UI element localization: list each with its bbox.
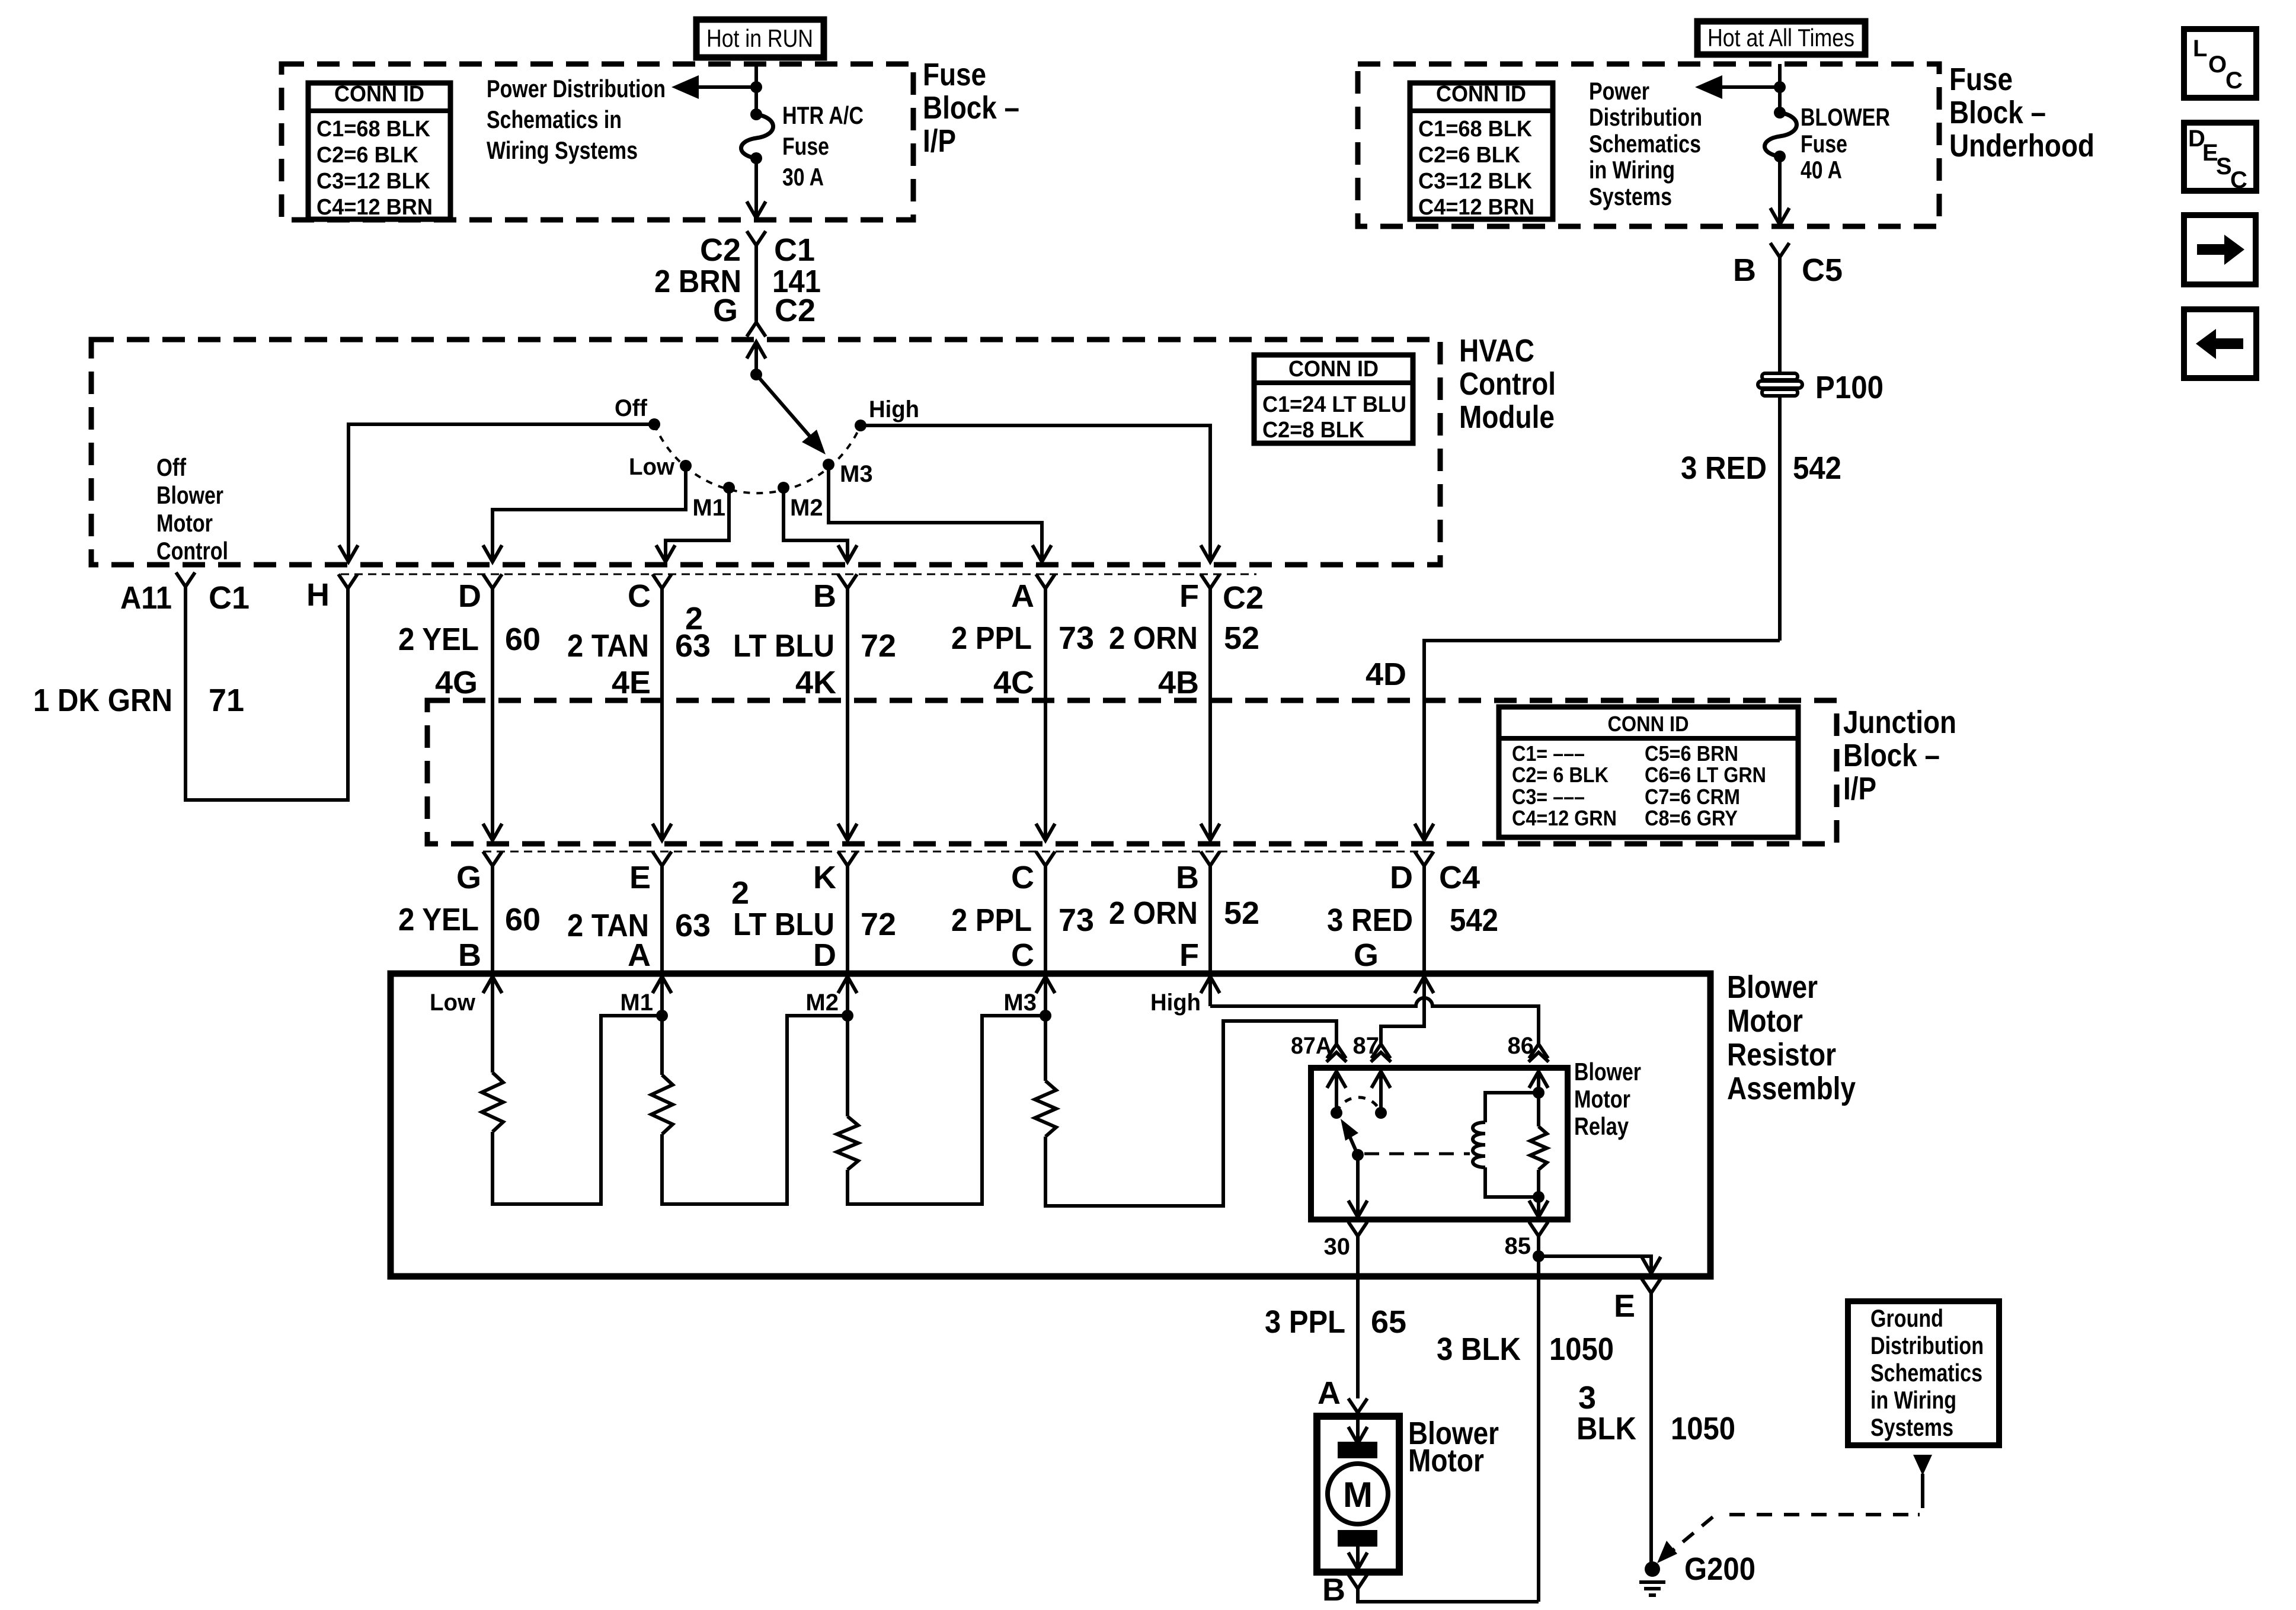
- switch travel dashed arc: [654, 424, 861, 493]
- wire through junction block at x=2403: [1422, 700, 1426, 840]
- connector fork pin E: [1642, 1279, 1661, 1293]
- connector table CONN ID (fuse block I/P): [308, 83, 450, 219]
- wire M1 dot to resistor R2: [660, 1016, 664, 1075]
- svg-text:4C: 4C: [993, 665, 1034, 700]
- svg-text:Blower: Blower: [156, 481, 223, 509]
- svg-text:B: B: [1322, 1572, 1345, 1608]
- wire M1 contact to pin C: [666, 488, 729, 562]
- svg-text:F: F: [1179, 937, 1199, 973]
- svg-text:Junction: Junction: [1843, 705, 1956, 740]
- motor brush bottom (filled): [1338, 1530, 1377, 1547]
- arrowhead M1 wire at pin C: [656, 545, 675, 562]
- svg-text:Blower: Blower: [1727, 969, 1818, 1005]
- svg-text:Systems: Systems: [1589, 183, 1672, 210]
- arrowhead Off wire at pin H: [339, 545, 358, 562]
- thin dashed connector row line (junction bottom): [483, 851, 1434, 853]
- svg-text:L: L: [2193, 36, 2207, 62]
- svg-text:in Wiring: in Wiring: [1870, 1386, 1956, 1414]
- svg-text:Resistor: Resistor: [1727, 1037, 1836, 1073]
- arrowhead M3 wire at pin A: [1032, 545, 1051, 562]
- wire stub to arrow (underhood): [1722, 85, 1780, 89]
- svg-text:E: E: [629, 860, 651, 895]
- svg-text:A11: A11: [120, 580, 172, 616]
- connector fork motor pin B: [1348, 1574, 1367, 1589]
- wire 3 RED 542 below P100: [1778, 396, 1782, 641]
- svg-text:73: 73: [1059, 620, 1094, 656]
- svg-text:542: 542: [1450, 902, 1498, 938]
- wire High pin down: [1208, 977, 1212, 1006]
- wire motor terminal A inside: [1356, 1416, 1360, 1443]
- svg-text:C: C: [628, 578, 651, 614]
- relay contact dot 87: [1375, 1107, 1387, 1119]
- svg-text:Relay: Relay: [1574, 1112, 1629, 1140]
- nav box next arrow: [2184, 215, 2256, 284]
- svg-text:Fuse: Fuse: [1949, 62, 2013, 97]
- nav box LOC: [2184, 29, 2256, 98]
- svg-text:B: B: [813, 578, 836, 614]
- svg-text:C4=12 BRN: C4=12 BRN: [316, 195, 433, 220]
- svg-text:Fuse: Fuse: [782, 132, 829, 160]
- svg-text:Blower: Blower: [1574, 1058, 1641, 1086]
- svg-text:Assembly: Assembly: [1727, 1071, 1856, 1106]
- svg-text:BLK: BLK: [1576, 1411, 1636, 1446]
- arrowhead M3 entering resistor box: [1036, 977, 1055, 993]
- svg-text:C2: C2: [775, 293, 816, 328]
- svg-text:CONN ID: CONN ID: [1288, 357, 1379, 382]
- svg-text:2 YEL: 2 YEL: [398, 902, 479, 937]
- svg-text:B: B: [1176, 860, 1199, 895]
- connector fork relay 87A: [1327, 1044, 1346, 1058]
- arrowhead M1 entering resistor box: [653, 977, 671, 993]
- arrow to power distribution (left): [671, 75, 699, 99]
- wire Low contact to pin D: [493, 466, 686, 562]
- svg-text:Hot at All Times: Hot at All Times: [1707, 24, 1854, 52]
- connector fork pin A: [1036, 574, 1055, 588]
- wire A11 to H (1 DK GRN 71): [186, 587, 348, 800]
- dashed link antenna to G200: [1918, 1496, 1923, 1515]
- wire through junction block at x=831: [491, 700, 494, 840]
- wire relay common to pin 30: [1356, 1155, 1360, 1217]
- svg-text:3: 3: [1578, 1380, 1596, 1416]
- wire relay 87 contact: [1379, 1071, 1383, 1113]
- wire through junction block at x=2042: [1208, 700, 1212, 840]
- ground G200 dot: [1645, 1561, 1660, 1577]
- junction dot ground net: [1533, 1250, 1544, 1262]
- svg-text:K: K: [813, 860, 836, 895]
- wire E to G200: [1649, 1293, 1653, 1562]
- svg-text:63: 63: [675, 908, 711, 943]
- svg-text:C1: C1: [774, 232, 815, 268]
- wire M3 contact to pin A: [829, 465, 1042, 562]
- svg-text:4K: 4K: [795, 665, 836, 700]
- wire R3 bottom to M3 riser: [848, 1016, 1045, 1204]
- connector fork pin A11: [176, 572, 195, 587]
- svg-text:M1: M1: [692, 495, 725, 521]
- wire High contact to pin F: [861, 425, 1210, 562]
- svg-text:C1=68 BLK: C1=68 BLK: [1418, 117, 1533, 142]
- connector table CONN ID (junction block): [1499, 707, 1798, 837]
- wire junction G to resistor B (2 YEL 60): [491, 866, 494, 974]
- junction dot M1: [656, 1010, 668, 1022]
- svg-text:LT BLU: LT BLU: [733, 907, 834, 942]
- junction dot M3: [1040, 1010, 1051, 1022]
- svg-text:C5=6 BRN: C5=6 BRN: [1645, 741, 1738, 766]
- svg-text:C1= –––: C1= –––: [1512, 741, 1585, 766]
- svg-text:P100: P100: [1815, 370, 1884, 405]
- svg-text:Block –: Block –: [1949, 95, 2046, 130]
- svg-text:Wiring Systems: Wiring Systems: [487, 136, 638, 164]
- wire junction E to resistor A (2 TAN 63): [660, 866, 664, 974]
- wire High to relay 86 with hop over G wire: [1210, 998, 1539, 1044]
- svg-text:542: 542: [1793, 450, 1841, 486]
- svg-text:Motor: Motor: [1408, 1443, 1484, 1478]
- pass-through connector P100 symbol: [1762, 373, 1798, 380]
- power label box 'Hot in RUN': [696, 20, 824, 57]
- switch contact M1: [723, 482, 735, 494]
- switch contact High: [855, 420, 866, 431]
- wire M2 pin to junction dot: [846, 977, 849, 1016]
- wire 3 RED jog to junction block: [1424, 641, 1780, 700]
- svg-text:3 RED: 3 RED: [1327, 902, 1413, 938]
- svg-text:60: 60: [505, 622, 541, 657]
- svg-text:Module: Module: [1459, 399, 1555, 435]
- wire junction K to resistor D (2 LT BLU 72): [846, 866, 849, 974]
- connector fork junction pin E: [653, 852, 671, 866]
- svg-text:I/P: I/P: [923, 123, 956, 159]
- resistor R4 (M3): [1035, 1081, 1056, 1137]
- wire pin F to junction B (2 ORN 52): [1208, 588, 1212, 700]
- svg-text:Systems: Systems: [1870, 1413, 1953, 1441]
- power label box 'Hot at All Times': [1697, 21, 1865, 55]
- switch contact M2: [778, 482, 789, 494]
- arrowhead at junction block bottom x=2403: [1415, 824, 1434, 840]
- svg-text:C7=6 CRM: C7=6 CRM: [1645, 785, 1740, 809]
- wire junction B to resistor F (2 ORN 52): [1208, 866, 1212, 974]
- svg-text:Hot in RUN: Hot in RUN: [706, 24, 813, 52]
- svg-text:C1: C1: [209, 580, 250, 616]
- svg-text:C1=24 LT BLU: C1=24 LT BLU: [1262, 392, 1406, 417]
- resistor R1 (Low): [482, 1073, 503, 1132]
- wire motor terminal B inside: [1356, 1547, 1360, 1569]
- arrowhead at I/P block bottom: [747, 201, 766, 218]
- connector fork junction pin D: [1415, 852, 1434, 866]
- svg-text:HVAC: HVAC: [1459, 333, 1534, 369]
- nav prev arrow glyph: [2196, 329, 2243, 359]
- switch contact Off: [648, 418, 660, 430]
- svg-text:D: D: [1390, 860, 1413, 895]
- fuse block Underhood dashed box: [1358, 64, 1939, 226]
- wire relay coil to pin 85: [1537, 1197, 1540, 1217]
- svg-text:HTR A/C: HTR A/C: [782, 101, 864, 129]
- svg-text:Schematics: Schematics: [1870, 1359, 1982, 1387]
- svg-text:G: G: [456, 860, 481, 895]
- relay coil bottom node dot: [1533, 1191, 1544, 1203]
- arrowhead at resistor box bottom (E): [1642, 1257, 1661, 1273]
- relay mechanical link dashed: [1364, 1153, 1470, 1156]
- svg-text:CONN ID: CONN ID: [334, 82, 424, 107]
- arrowhead at junction block bottom x=1764: [1036, 824, 1055, 840]
- svg-text:1050: 1050: [1549, 1331, 1614, 1367]
- relay suppression resistor: [1530, 1126, 1547, 1170]
- svg-text:Block –: Block –: [923, 90, 1019, 126]
- HVAC control module dashed box: [91, 340, 1440, 565]
- svg-text:Low: Low: [430, 990, 476, 1016]
- svg-text:2: 2: [685, 601, 703, 636]
- svg-text:G: G: [1354, 937, 1379, 973]
- svg-text:3 RED: 3 RED: [1681, 450, 1767, 486]
- wire pin C to junction E (2 TAN 63): [660, 588, 664, 700]
- svg-text:M3: M3: [840, 461, 873, 487]
- svg-text:High: High: [1150, 990, 1201, 1016]
- ground G200 symbol: [1639, 1580, 1665, 1584]
- svg-text:52: 52: [1224, 620, 1259, 656]
- arrowhead relay pin 85 inside: [1529, 1201, 1548, 1217]
- fuse F2 BLOWER 40A symbol: [1765, 113, 1797, 156]
- blower motor resistor assembly box: [391, 974, 1710, 1276]
- svg-text:C: C: [1011, 860, 1034, 895]
- wire power feed to fuse HTR A/C: [754, 64, 758, 114]
- svg-text:87A: 87A: [1291, 1033, 1332, 1059]
- svg-text:BLOWER: BLOWER: [1801, 103, 1890, 131]
- svg-text:CONN ID: CONN ID: [1608, 712, 1689, 736]
- svg-text:C2=8 BLK: C2=8 BLK: [1262, 418, 1365, 443]
- wire junction C to resistor C (2 PPL 73): [1044, 866, 1047, 974]
- svg-text:Motor: Motor: [1574, 1085, 1630, 1113]
- svg-text:Control: Control: [156, 537, 228, 565]
- wire pin B to junction K (2 LT BLU 72): [846, 588, 849, 700]
- svg-text:C2=6 BLK: C2=6 BLK: [1418, 143, 1521, 168]
- svg-text:M2: M2: [805, 990, 839, 1016]
- connector fork pin D: [483, 574, 502, 588]
- svg-text:Off: Off: [156, 453, 187, 481]
- wire G pin down to relay 87: [1381, 977, 1424, 1044]
- connector fork junction pin B: [1201, 852, 1220, 866]
- junction dot power feed: [750, 81, 762, 93]
- svg-text:60: 60: [505, 902, 541, 937]
- svg-text:2 ORN: 2 ORN: [1109, 620, 1198, 656]
- arrowhead Low entering resistor box: [483, 977, 502, 993]
- svg-text:86: 86: [1508, 1033, 1534, 1059]
- svg-text:M3: M3: [1003, 990, 1037, 1016]
- svg-text:4D: 4D: [1366, 657, 1406, 692]
- svg-text:2 PPL: 2 PPL: [951, 902, 1032, 938]
- arrowhead relay 87 inside: [1371, 1071, 1390, 1088]
- svg-text:85: 85: [1505, 1233, 1531, 1259]
- arrowhead G entering resistor box: [1415, 977, 1434, 993]
- svg-text:4G: 4G: [435, 665, 478, 700]
- svg-text:Distribution: Distribution: [1589, 103, 1702, 131]
- wire 3 BLK 1050 down to motor return: [1537, 1256, 1540, 1602]
- motor armature circle: [1328, 1464, 1388, 1524]
- connector fork pin B: [838, 574, 857, 588]
- svg-text:2: 2: [731, 875, 749, 911]
- arrowhead at junction block bottom x=831: [483, 824, 502, 840]
- svg-text:C3=12 BLK: C3=12 BLK: [316, 169, 431, 194]
- connector fork junction pin K: [838, 852, 857, 866]
- svg-text:Schematics: Schematics: [1589, 130, 1701, 158]
- svg-text:Distribution: Distribution: [1870, 1331, 1984, 1359]
- arrowhead at junction block bottom x=2042: [1201, 824, 1220, 840]
- svg-text:Block –: Block –: [1843, 738, 1940, 773]
- svg-text:3 BLK: 3 BLK: [1437, 1331, 1521, 1367]
- wire M2 contact to pin B: [784, 488, 848, 562]
- relay contact travel dashed arc: [1336, 1097, 1381, 1113]
- connector fork pin F: [1201, 574, 1220, 588]
- svg-text:C2=6 BLK: C2=6 BLK: [316, 143, 419, 168]
- svg-text:O: O: [2208, 52, 2227, 78]
- wire through junction block at x=1764: [1044, 700, 1047, 840]
- wire through junction block at x=1430: [846, 700, 849, 840]
- switch contact M3: [823, 459, 834, 470]
- wire fuse output down: [754, 158, 758, 218]
- connector fork junction pin C: [1036, 852, 1055, 866]
- svg-text:C2= 6 BLK: C2= 6 BLK: [1512, 763, 1609, 787]
- svg-text:C6=6 LT GRN: C6=6 LT GRN: [1645, 763, 1766, 787]
- arrowhead at junction block bottom x=1117: [653, 824, 671, 840]
- connector table CONN ID (HVAC): [1254, 355, 1413, 443]
- svg-text:C2: C2: [700, 232, 741, 268]
- wire 542 from C5 to P100: [1778, 257, 1782, 373]
- relay contact dot 87A: [1331, 1107, 1342, 1119]
- svg-text:M: M: [1343, 1475, 1373, 1515]
- svg-text:C5: C5: [1802, 252, 1843, 288]
- svg-text:72: 72: [861, 907, 896, 942]
- wire relay 30 to blower motor A (3 PPL 65): [1356, 1236, 1360, 1398]
- svg-text:S: S: [2216, 153, 2232, 180]
- svg-text:71: 71: [209, 683, 244, 718]
- connector fork C2 upper half: [747, 231, 766, 245]
- arrow to power distribution (underhood): [1695, 75, 1722, 99]
- svg-text:C4=12 GRN: C4=12 GRN: [1512, 806, 1617, 830]
- svg-text:Fuse: Fuse: [923, 57, 986, 92]
- connector fork C1 lower half: [747, 322, 766, 337]
- fuse F1 HTR A/C 30A symbol: [741, 114, 773, 158]
- svg-text:2 YEL: 2 YEL: [398, 622, 479, 657]
- connector fork pin H: [338, 574, 357, 588]
- svg-text:CONN ID: CONN ID: [1436, 82, 1526, 107]
- junction dot M2: [842, 1010, 853, 1022]
- svg-text:A: A: [628, 937, 651, 973]
- wire ground net to pin E: [1539, 1256, 1651, 1273]
- wire R4 bottom to relay 87A: [1045, 1021, 1336, 1206]
- svg-text:C: C: [1011, 937, 1034, 973]
- svg-text:C1=68 BLK: C1=68 BLK: [316, 117, 431, 142]
- relay switch blade with arrowhead: [1349, 1135, 1358, 1155]
- svg-text:4E: 4E: [612, 665, 651, 700]
- wire M2 dot to resistor R3: [846, 1016, 849, 1116]
- wire relay 85 to ground net: [1537, 1236, 1540, 1256]
- svg-text:C4: C4: [1439, 860, 1480, 895]
- svg-text:Power Distribution: Power Distribution: [487, 75, 666, 103]
- relay coil top node dot: [1533, 1087, 1544, 1099]
- motor brush top (filled): [1338, 1442, 1377, 1458]
- arrowhead relay 87A inside: [1327, 1071, 1346, 1088]
- svg-text:B: B: [458, 937, 481, 973]
- svg-text:High: High: [869, 396, 919, 422]
- svg-text:40 A: 40 A: [1801, 156, 1842, 184]
- svg-text:65: 65: [1371, 1304, 1406, 1340]
- switch arm with arrowhead toward M3: [756, 375, 811, 437]
- wire R1 bottom to M1 riser: [493, 1016, 662, 1204]
- arrowhead dashed link at G200: [1657, 1541, 1677, 1563]
- svg-text:87: 87: [1353, 1033, 1380, 1059]
- nav box DESC: [2184, 123, 2256, 191]
- svg-text:2 PPL: 2 PPL: [951, 620, 1032, 656]
- arrowhead motor inside bottom: [1348, 1553, 1367, 1569]
- svg-text:Power: Power: [1589, 77, 1649, 105]
- svg-text:C2: C2: [1223, 580, 1264, 616]
- svg-text:M2: M2: [790, 495, 823, 521]
- wire M1 pin to junction dot: [660, 977, 664, 1016]
- svg-text:Control: Control: [1459, 366, 1556, 402]
- wire BLOWER fuse output down: [1778, 156, 1782, 225]
- switch contact Low: [680, 460, 692, 472]
- junction dot underhood feed: [1774, 81, 1786, 93]
- connector fork B|C5: [1770, 243, 1789, 257]
- arrowhead relay 86 inside: [1529, 1071, 1548, 1088]
- svg-text:C3=12 BLK: C3=12 BLK: [1418, 169, 1533, 194]
- svg-text:3 PPL: 3 PPL: [1265, 1304, 1345, 1340]
- connector fork relay 30: [1348, 1222, 1367, 1236]
- svg-text:M1: M1: [620, 990, 653, 1016]
- svg-text:Ground: Ground: [1870, 1304, 1943, 1332]
- wire motor B return to ground net: [1358, 1589, 1539, 1602]
- svg-text:H: H: [306, 577, 330, 613]
- svg-text:Underhood: Underhood: [1949, 128, 2094, 164]
- wire through junction block at x=1117: [660, 700, 664, 840]
- wire Low to resistor R1: [491, 977, 494, 1073]
- wire stub to arrow: [699, 85, 756, 89]
- svg-text:30: 30: [1324, 1234, 1351, 1260]
- wire M3 pin to junction dot: [1044, 977, 1047, 1016]
- antenna symbol (ground reference): [1913, 1455, 1932, 1475]
- resistor R2 (M1): [651, 1075, 673, 1134]
- arrowhead M2 entering resistor box: [838, 977, 857, 993]
- svg-text:30 A: 30 A: [782, 163, 824, 191]
- connector table CONN ID (fuse block Underhood): [1410, 83, 1553, 219]
- svg-text:C8=6 GRY: C8=6 GRY: [1645, 806, 1738, 830]
- svg-text:D: D: [813, 937, 836, 973]
- svg-text:Motor: Motor: [156, 509, 213, 537]
- connector fork relay 85: [1529, 1222, 1548, 1236]
- svg-text:72: 72: [861, 628, 896, 664]
- wire junction D to resistor G (3 RED 542): [1422, 866, 1426, 974]
- svg-text:C: C: [2230, 167, 2247, 193]
- svg-text:B: B: [1733, 252, 1756, 288]
- svg-text:C: C: [2225, 68, 2243, 94]
- arrowhead M2 wire at pin B: [838, 545, 857, 562]
- svg-text:C3= –––: C3= –––: [1512, 785, 1585, 809]
- svg-text:A: A: [1318, 1375, 1341, 1411]
- svg-text:D: D: [458, 578, 481, 614]
- svg-text:Low: Low: [629, 454, 675, 480]
- svg-text:1 DK GRN: 1 DK GRN: [33, 683, 172, 718]
- arrowhead at junction block bottom x=1430: [838, 824, 857, 840]
- relay coil branch: [1485, 1093, 1539, 1122]
- svg-text:Motor: Motor: [1727, 1003, 1803, 1039]
- svg-text:E: E: [1614, 1288, 1635, 1324]
- connector fork relay 86: [1529, 1044, 1548, 1058]
- connector fork motor pin A: [1348, 1398, 1367, 1413]
- arrowhead Low wire at pin D: [483, 545, 502, 562]
- ground distribution reference box: [1848, 1301, 1999, 1445]
- svg-text:G200: G200: [1684, 1551, 1755, 1587]
- nav box prev arrow: [2184, 309, 2256, 378]
- connector fork junction pin G: [483, 852, 502, 866]
- wire 2 BRN 141 segment: [754, 245, 758, 322]
- svg-text:2 ORN: 2 ORN: [1109, 895, 1198, 931]
- arrowhead switch feed entering HVAC: [747, 342, 766, 359]
